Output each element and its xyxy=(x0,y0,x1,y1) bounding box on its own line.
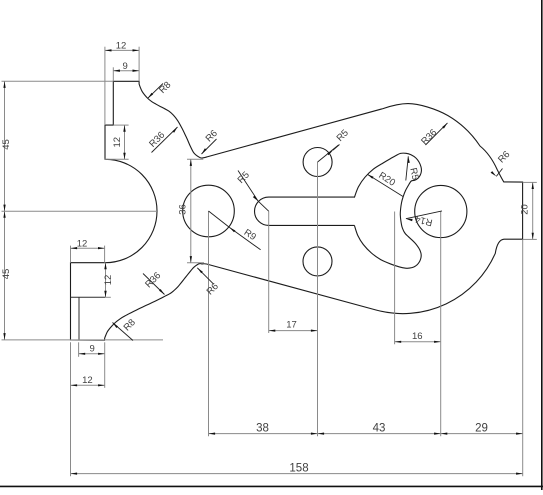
dim 29 xyxy=(441,422,523,435)
dim 158 xyxy=(71,462,523,475)
label R5 slot cap xyxy=(236,170,259,202)
circle R5 lower xyxy=(303,247,332,276)
svg-text:12: 12 xyxy=(116,41,127,52)
svg-text:9: 9 xyxy=(90,344,95,355)
frame bottom xyxy=(0,485,543,487)
ext 36 stub bottom xyxy=(187,262,204,264)
label R14 boss xyxy=(406,211,442,228)
ext R9 center down xyxy=(208,211,210,436)
dim 9 top xyxy=(113,61,139,72)
label R9 xyxy=(229,227,260,250)
svg-text:12: 12 xyxy=(112,137,123,148)
dim 17 xyxy=(269,320,318,332)
ext notch12b stub xyxy=(105,296,111,298)
ext notch12 stub upper xyxy=(113,124,128,126)
ext boss center down xyxy=(440,212,442,437)
ext R5 circles vertical xyxy=(317,162,319,436)
dim 38 xyxy=(209,422,318,435)
bottom tab notch vertical edge xyxy=(78,297,80,340)
ext notch12 stub lower xyxy=(105,158,129,160)
ext 12bl upper right xyxy=(104,246,106,263)
ext 12top right xyxy=(138,47,140,82)
svg-text:12: 12 xyxy=(103,275,114,286)
ext 12bl upper left xyxy=(70,246,72,263)
bottom tab notch horizontal edge xyxy=(71,296,106,298)
dim 12 bottom notch xyxy=(103,263,114,298)
ext top edge to left xyxy=(2,80,114,82)
label R6 top-left xyxy=(202,128,220,154)
label R6 bottom-left xyxy=(197,268,221,298)
svg-text:36: 36 xyxy=(178,204,189,215)
circle R5 upper xyxy=(303,148,332,177)
label R36 bottom-left xyxy=(143,270,165,294)
dim 45 lower xyxy=(1,211,12,340)
boss circle R14 (d18) xyxy=(415,185,467,237)
dim 36 jaw xyxy=(178,159,192,262)
svg-text:12: 12 xyxy=(82,375,93,386)
svg-text:29: 29 xyxy=(475,422,488,434)
part outline xyxy=(71,81,523,340)
leader R5 slot cap tail xyxy=(258,201,269,211)
label R20 xyxy=(367,170,403,196)
svg-text:43: 43 xyxy=(373,422,386,434)
dim 12 top xyxy=(105,41,139,52)
dim 45 upper xyxy=(1,81,12,211)
svg-text:158: 158 xyxy=(289,462,308,474)
svg-text:38: 38 xyxy=(256,422,269,434)
svg-text:45: 45 xyxy=(1,139,12,150)
svg-text:20: 20 xyxy=(520,204,531,215)
ext mid axis xyxy=(2,210,158,212)
dim 43 xyxy=(318,422,441,435)
dim 12 bottom xyxy=(71,375,105,386)
dim 16 xyxy=(395,331,441,343)
leader R5 upper radial xyxy=(318,145,339,162)
ext 12b-158 left xyxy=(70,342,72,476)
svg-text:12: 12 xyxy=(77,238,88,249)
ext slot cap center down xyxy=(268,211,270,333)
ext 20 stub bottom xyxy=(523,238,537,240)
circle R9 xyxy=(183,185,235,237)
label R36 head xyxy=(419,123,447,147)
label R8 bottom-left xyxy=(113,317,138,340)
label R5 upper circle xyxy=(327,128,351,156)
ext 36 stub top xyxy=(187,158,203,160)
ext bottom edge to left xyxy=(2,339,164,341)
label R36 top-left xyxy=(147,127,177,153)
svg-text:16: 16 xyxy=(412,331,423,342)
label R6 head xyxy=(491,149,513,176)
dim 20 xyxy=(520,182,534,239)
ext 12top left xyxy=(104,47,106,125)
ext keyhole center down xyxy=(394,212,396,345)
leader R9 radial xyxy=(209,211,230,227)
ext 9top left xyxy=(112,67,114,81)
ext 9b left xyxy=(78,342,80,357)
frame right xyxy=(541,0,543,490)
dim 12 bottom-tab upper xyxy=(71,238,105,249)
keyhole slot cutout xyxy=(255,153,422,268)
svg-text:17: 17 xyxy=(286,320,297,331)
svg-text:9: 9 xyxy=(123,61,128,72)
ext 20 stub top xyxy=(523,181,537,183)
label R8 top xyxy=(148,80,174,99)
dim 9 bottom xyxy=(79,344,105,355)
svg-text:45: 45 xyxy=(1,269,12,280)
label R5 keyhole tip xyxy=(406,156,421,181)
dim 12 top notch xyxy=(112,125,126,159)
ext right edge down xyxy=(522,239,524,476)
ext 9b-12b right xyxy=(104,342,106,388)
